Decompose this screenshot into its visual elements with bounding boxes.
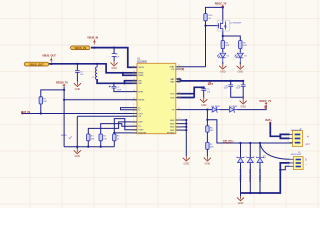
svg-text:Z3: Z3 bbox=[263, 155, 267, 159]
svg-text:GND: GND bbox=[170, 127, 175, 129]
svg-text:6: 6 bbox=[133, 109, 134, 111]
svg-text:+: + bbox=[307, 135, 309, 139]
svg-text:SW: SW bbox=[138, 83, 141, 85]
svg-text:D: D bbox=[305, 158, 307, 161]
svg-text:MICROB-3P: MICROB-3P bbox=[291, 154, 302, 156]
svg-text:GND: GND bbox=[170, 130, 175, 132]
svg-text:3: 3 bbox=[288, 165, 289, 167]
svg-text:SMF05CA: SMF05CA bbox=[258, 169, 262, 182]
svg-text:30K: 30K bbox=[210, 147, 214, 149]
svg-text:PMID: PMID bbox=[138, 75, 144, 77]
svg-text:1: 1 bbox=[288, 158, 289, 160]
svg-text:2: 2 bbox=[133, 120, 134, 122]
svg-text:OTG: OTG bbox=[138, 113, 143, 115]
svg-text:BQ25890: BQ25890 bbox=[137, 61, 147, 63]
svg-text:19: 19 bbox=[133, 82, 135, 84]
svg-text:SYS: SYS bbox=[170, 97, 175, 99]
svg-text:REGN_7V: REGN_7V bbox=[56, 81, 68, 84]
svg-text:RSOC_7V: RSOC_7V bbox=[215, 3, 227, 6]
svg-text:3: 3 bbox=[133, 123, 134, 125]
svg-text:REGN: REGN bbox=[61, 135, 67, 137]
svg-text:BTST: BTST bbox=[138, 91, 144, 93]
svg-text:10R: 10R bbox=[243, 45, 247, 47]
svg-text:8: 8 bbox=[133, 114, 134, 116]
svg-text:R4: R4 bbox=[117, 136, 119, 138]
svg-text:PG: PG bbox=[171, 69, 174, 71]
svg-text:16: 16 bbox=[133, 98, 135, 100]
svg-text:12: 12 bbox=[178, 65, 180, 67]
svg-text:D4 SS34: D4 SS34 bbox=[212, 106, 221, 108]
svg-text:14: 14 bbox=[178, 92, 180, 94]
svg-text:1: 1 bbox=[288, 133, 289, 135]
svg-text:18: 18 bbox=[133, 90, 135, 92]
svg-text:1: 1 bbox=[133, 66, 134, 68]
svg-text:GND: GND bbox=[170, 123, 175, 125]
svg-text:MICROB-3P: MICROB-3P bbox=[291, 130, 302, 132]
svg-text:REGN: REGN bbox=[138, 100, 144, 102]
svg-text:23: 23 bbox=[133, 74, 135, 76]
svg-text:10R: 10R bbox=[226, 45, 230, 47]
svg-text:2: 2 bbox=[288, 137, 289, 139]
svg-text:R2: R2 bbox=[91, 136, 93, 138]
svg-text:Q1 PMV48XP: Q1 PMV48XP bbox=[230, 22, 243, 24]
svg-text:KBRSET: KBRSET bbox=[138, 133, 147, 135]
svg-text:11: 11 bbox=[178, 118, 180, 120]
svg-text:2: 2 bbox=[288, 162, 289, 164]
svg-text:R3: R3 bbox=[103, 136, 105, 138]
svg-text:VBUS_OUT: VBUS_OUT bbox=[42, 55, 56, 58]
svg-text:BAT+: BAT+ bbox=[265, 119, 272, 122]
svg-text:BAT_NTC-: BAT_NTC- bbox=[223, 142, 234, 145]
svg-text:GND: GND bbox=[170, 120, 175, 122]
svg-text:10: 10 bbox=[178, 108, 180, 110]
svg-text:-: - bbox=[306, 162, 307, 166]
svg-text:13: 13 bbox=[178, 77, 180, 79]
svg-text:NTC: NTC bbox=[306, 144, 311, 146]
svg-text:9: 9 bbox=[133, 125, 134, 127]
svg-text:7: 7 bbox=[133, 112, 134, 114]
svg-text:VBUS: VBUS bbox=[138, 67, 144, 69]
svg-text:10K: 10K bbox=[43, 101, 47, 103]
svg-text:5: 5 bbox=[133, 106, 134, 108]
svg-text:VBUS_OUT: VBUS_OUT bbox=[29, 62, 44, 66]
svg-text:D5 SS34: D5 SS34 bbox=[229, 106, 238, 108]
svg-text:47nF: 47nF bbox=[117, 89, 122, 91]
svg-text:VBUS_IN: VBUS_IN bbox=[87, 37, 98, 40]
svg-text:RSOC_7V: RSOC_7V bbox=[259, 100, 271, 103]
svg-text:20: 20 bbox=[133, 79, 135, 81]
svg-text:ILIM: ILIM bbox=[138, 122, 142, 124]
svg-text:YSET: YSET bbox=[138, 130, 144, 132]
svg-text:SMF05CA: SMF05CA bbox=[248, 169, 252, 182]
svg-text:4: 4 bbox=[133, 104, 134, 106]
svg-text:EPGND: EPGND bbox=[167, 133, 175, 135]
svg-text:VBUS_IN: VBUS_IN bbox=[74, 46, 86, 50]
svg-text:D2: D2 bbox=[227, 56, 229, 58]
svg-text:3: 3 bbox=[288, 141, 289, 143]
svg-text:SMF05CA: SMF05CA bbox=[238, 169, 242, 182]
svg-text:D-: D- bbox=[138, 110, 140, 112]
svg-text:D3: D3 bbox=[244, 56, 246, 58]
svg-text:SYS: SYS bbox=[170, 94, 175, 96]
svg-text:24: 24 bbox=[133, 71, 135, 73]
